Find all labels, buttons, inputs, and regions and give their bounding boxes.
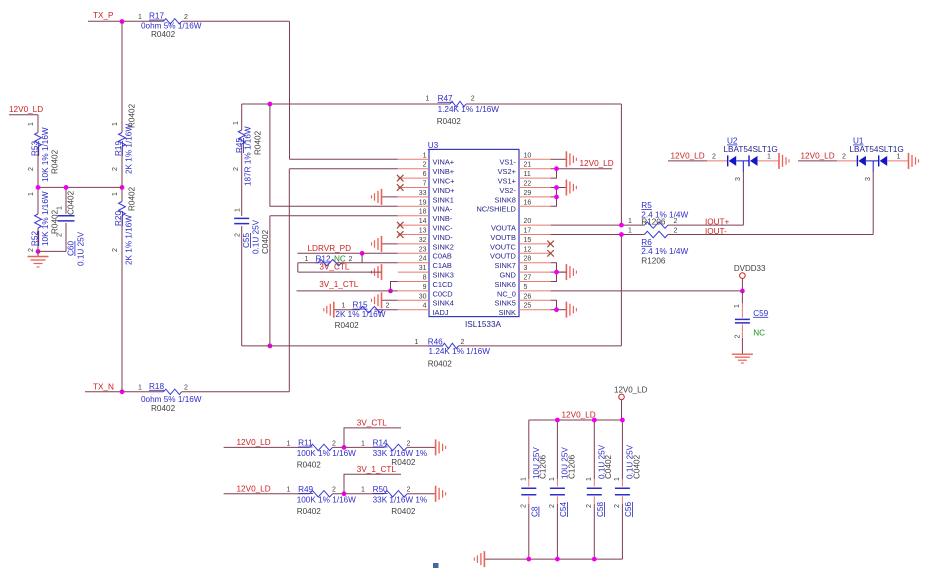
svg-text:SINK4: SINK4 <box>433 299 454 308</box>
svg-text:R49: R49 <box>298 485 313 494</box>
svg-text:1: 1 <box>233 121 240 125</box>
U3 pin 10 (VS1-) <box>499 152 566 166</box>
IC U3 ISL1533A <box>428 141 519 329</box>
junction ground rail <box>555 557 560 562</box>
svg-text:11: 11 <box>524 171 531 178</box>
svg-text:1: 1 <box>426 95 430 102</box>
svg-text:29: 29 <box>524 190 532 197</box>
svg-text:C8: C8 <box>531 506 540 517</box>
U3 pin 2 (VINB+) <box>398 162 454 176</box>
junction top rail <box>592 418 597 423</box>
U3 pin 31 (SINK3) <box>398 265 454 279</box>
capacitor C54 <box>549 420 576 559</box>
U3 pin 15 (VOUTC) <box>490 237 554 251</box>
svg-text:VIND+: VIND+ <box>433 186 455 195</box>
resistor R12 (NC) <box>305 254 353 266</box>
svg-text:3V_1_CTL: 3V_1_CTL <box>357 465 397 474</box>
svg-text:15: 15 <box>524 237 532 244</box>
svg-text:SINK: SINK <box>499 308 516 317</box>
svg-text:2: 2 <box>842 154 846 161</box>
U3 pin 24 (C1AB) <box>398 256 452 270</box>
ground at GND <box>566 264 576 280</box>
node TX_N <box>85 383 289 392</box>
svg-text:100K 1% 1/16W: 100K 1% 1/16W <box>297 496 356 505</box>
wire node A horizontal <box>38 186 122 188</box>
svg-text:R0402: R0402 <box>428 359 453 368</box>
U3 pin 9 (C0CD) <box>398 284 453 298</box>
junction ground rail <box>526 557 531 562</box>
resistor R11 <box>287 439 357 470</box>
svg-text:R52: R52 <box>30 231 39 246</box>
U3 pin 28 (SINK7) <box>495 256 551 270</box>
svg-text:C59: C59 <box>753 309 768 318</box>
svg-text:C1CD: C1CD <box>433 280 453 289</box>
junction VS2+ <box>554 166 559 171</box>
svg-text:2: 2 <box>423 162 427 169</box>
junction SINK pin <box>554 307 559 312</box>
svg-text:DVDD33: DVDD33 <box>734 264 766 273</box>
svg-text:3: 3 <box>735 177 742 181</box>
wire cap bank ground rail <box>484 558 622 560</box>
svg-text:1: 1 <box>361 440 365 447</box>
resistor R15 <box>334 301 398 331</box>
svg-text:VOUTC: VOUTC <box>490 242 517 251</box>
svg-text:9: 9 <box>423 284 427 291</box>
svg-text:R46: R46 <box>428 338 443 347</box>
svg-text:R0402: R0402 <box>297 461 322 470</box>
wire VOUTA to R5 <box>551 224 645 226</box>
junction R52 bottom <box>36 249 41 254</box>
U3 pin 13 (VIND-) <box>397 228 453 242</box>
svg-text:2: 2 <box>407 440 411 447</box>
svg-text:LDRVR_PD: LDRVR_PD <box>308 244 352 253</box>
junction VINB- branch / R46 line <box>268 344 273 349</box>
ground at U2 pin 1 <box>779 153 789 169</box>
svg-text:VOUTA: VOUTA <box>491 224 516 233</box>
svg-text:GND: GND <box>499 271 515 280</box>
svg-text:187R 1% 1/16W: 187R 1% 1/16W <box>244 126 253 186</box>
svg-text:R0402: R0402 <box>151 404 176 413</box>
resistor R14 <box>361 439 427 467</box>
ground at cap bank <box>474 551 484 567</box>
svg-text:2: 2 <box>521 504 528 508</box>
svg-text:32: 32 <box>419 237 427 244</box>
junction R53/R52 <box>36 185 41 190</box>
svg-text:23: 23 <box>419 246 427 253</box>
U3 pin 3 (GND) <box>499 265 566 279</box>
svg-text:24: 24 <box>419 256 427 263</box>
svg-text:2: 2 <box>674 218 678 225</box>
junction SINK8 <box>554 195 559 200</box>
svg-text:1: 1 <box>138 14 142 21</box>
svg-text:R0402: R0402 <box>51 149 60 174</box>
node 12V0_LD divider A <box>224 438 436 447</box>
U3 pin 11 (VS1+) <box>498 171 551 185</box>
svg-text:VINA-: VINA- <box>433 205 453 214</box>
U3 pin 30 (SINK4) <box>382 293 454 307</box>
svg-text:5: 5 <box>524 284 528 291</box>
svg-text:25: 25 <box>524 303 532 310</box>
svg-text:3V_CTL: 3V_CTL <box>357 418 387 427</box>
svg-text:1: 1 <box>897 154 901 161</box>
svg-text:C0402: C0402 <box>604 454 613 479</box>
ground at U1 pin 1 <box>909 153 919 169</box>
U3 pin 26 (SINK5) <box>495 293 551 307</box>
svg-text:R0402: R0402 <box>128 103 137 128</box>
svg-text:8: 8 <box>423 275 427 282</box>
svg-text:1.24K 1% 1/16W: 1.24K 1% 1/16W <box>429 347 491 356</box>
diode pair U2 LBAT54SLT1G <box>668 137 779 182</box>
svg-text:3V_1_CTL: 3V_1_CTL <box>319 280 359 289</box>
svg-text:VINB+: VINB+ <box>433 167 455 176</box>
node 12V0_LD off-page connector <box>614 386 648 420</box>
U3 pin 32 (SINK2) <box>382 237 454 251</box>
svg-text:R0402: R0402 <box>391 507 416 516</box>
node 12V0_LD stub top-left <box>9 105 43 251</box>
svg-text:2: 2 <box>471 95 475 102</box>
svg-text:3V_CTL: 3V_CTL <box>319 262 349 271</box>
svg-text:1: 1 <box>361 487 365 494</box>
svg-text:R0402: R0402 <box>253 130 262 155</box>
svg-text:VS2-: VS2- <box>499 186 516 195</box>
svg-text:2: 2 <box>28 248 35 252</box>
U3 pin 12 (VOUTD) <box>490 246 554 260</box>
svg-text:R47: R47 <box>438 94 453 103</box>
ground at R14 <box>436 439 446 455</box>
svg-text:12V0_LD: 12V0_LD <box>237 485 271 494</box>
U3 pin 1 (VINA+) <box>398 152 454 166</box>
junction R47 line / VINA- branch <box>268 102 273 107</box>
svg-text:VOUTD: VOUTD <box>490 252 516 261</box>
wire VINA- branch <box>270 104 398 206</box>
junction top rail <box>555 418 560 423</box>
wire R12 link <box>298 253 398 272</box>
node 3V_1_CTL label stub <box>344 465 401 494</box>
node 12V0_LD at VS2+ <box>551 159 614 169</box>
svg-text:2: 2 <box>184 384 188 391</box>
svg-text:2: 2 <box>57 233 64 237</box>
svg-text:R0402: R0402 <box>51 209 60 234</box>
U3 pin 14 (VINC-) <box>397 218 453 232</box>
svg-text:SINK6: SINK6 <box>495 280 516 289</box>
svg-text:C1206: C1206 <box>539 454 548 479</box>
svg-text:R0402: R0402 <box>151 30 176 39</box>
junction divider B <box>342 491 347 496</box>
svg-text:1: 1 <box>767 154 771 161</box>
svg-text:R6: R6 <box>641 238 652 247</box>
U3 pin 27 (SINK6) <box>495 275 551 289</box>
svg-text:NC_0: NC_0 <box>497 289 516 298</box>
ground at SINK <box>566 302 576 318</box>
svg-text:10K 1% 1/16W: 10K 1% 1/16W <box>41 127 50 182</box>
U3 pin 17 (VOUTB) <box>490 228 550 242</box>
resistor R45 <box>233 121 262 186</box>
wire TX_P vertical bias chain <box>121 21 123 392</box>
junction VS2- <box>554 185 559 190</box>
svg-text:19: 19 <box>419 199 427 206</box>
svg-text:2: 2 <box>332 487 336 494</box>
svg-text:1: 1 <box>415 339 419 346</box>
svg-text:C55: C55 <box>242 233 251 248</box>
capacitor C58 <box>586 420 613 559</box>
svg-text:2: 2 <box>407 487 411 494</box>
svg-text:2K 1% 1/16W: 2K 1% 1/16W <box>335 310 385 319</box>
svg-text:VINC-: VINC- <box>433 224 454 233</box>
node 12V0_LD cap bank rail <box>529 411 623 420</box>
ground at SINK3 / R12 return <box>372 264 382 280</box>
wire R47 feedback line <box>242 104 622 225</box>
wire VS2+/VS1+ tie <box>551 169 557 178</box>
resistor R49 <box>287 485 357 516</box>
svg-text:2: 2 <box>184 14 188 21</box>
svg-text:2: 2 <box>614 504 621 508</box>
svg-text:C0AB: C0AB <box>433 252 452 261</box>
U3 pin 18 (VINB-) <box>398 209 453 223</box>
svg-text:SINK2: SINK2 <box>433 242 454 251</box>
svg-text:ISL1533A: ISL1533A <box>465 320 502 329</box>
svg-text:R20: R20 <box>114 211 123 226</box>
svg-text:R0402: R0402 <box>437 117 462 126</box>
svg-text:0.1U 25V: 0.1U 25V <box>252 219 261 254</box>
resistor R52 <box>28 191 60 252</box>
junction GND pin <box>554 270 559 275</box>
resistor R5 <box>628 201 688 228</box>
svg-text:R0402: R0402 <box>297 507 322 516</box>
diode pair U1 LBAT54SLT1G <box>798 137 909 182</box>
svg-text:33: 33 <box>419 190 427 197</box>
node LDRVR_PD <box>297 244 397 253</box>
svg-text:12V0_LD: 12V0_LD <box>562 411 596 420</box>
svg-text:SINK7: SINK7 <box>495 261 516 270</box>
svg-text:1: 1 <box>112 192 119 196</box>
svg-text:2: 2 <box>386 302 390 309</box>
svg-text:1: 1 <box>628 218 632 225</box>
U3 pin 16 (NC/SHIELD) <box>476 199 550 213</box>
wire VOUTB to R6 <box>551 234 645 236</box>
svg-text:2: 2 <box>549 504 556 508</box>
ground at VS2- <box>566 180 576 196</box>
svg-text:1: 1 <box>586 477 593 481</box>
svg-text:R1206: R1206 <box>641 256 666 265</box>
wire TX_N to pin VINB+ <box>289 169 398 392</box>
svg-text:2: 2 <box>674 228 678 235</box>
wire SINK5/SINK tie <box>551 300 557 309</box>
resistor R17 <box>138 12 202 39</box>
svg-text:1: 1 <box>235 208 242 212</box>
svg-text:R5: R5 <box>641 201 652 210</box>
svg-text:12: 12 <box>524 246 532 253</box>
resistor R19 <box>112 103 137 174</box>
svg-text:C0402: C0402 <box>261 229 270 254</box>
svg-text:2K 1% 1/16W: 2K 1% 1/16W <box>124 124 133 174</box>
ground at SINK4 <box>372 292 382 308</box>
junction top rail <box>620 418 625 423</box>
svg-text:IADJ: IADJ <box>433 308 449 317</box>
junction LDRVR_PD / R12 <box>360 251 365 256</box>
svg-text:1: 1 <box>549 477 556 481</box>
svg-text:C1206: C1206 <box>567 454 576 479</box>
junction C60 top <box>64 185 69 190</box>
svg-text:2: 2 <box>28 167 35 171</box>
wire R45/C55 branch <box>241 104 243 346</box>
wire VINB- branch <box>270 216 398 346</box>
svg-text:TX_N: TX_N <box>93 383 114 392</box>
svg-text:NC: NC <box>753 328 765 337</box>
svg-text:C58: C58 <box>596 502 605 517</box>
svg-text:U3: U3 <box>428 141 439 150</box>
svg-text:12V0_LD: 12V0_LD <box>614 386 648 395</box>
svg-text:R1206: R1206 <box>641 217 666 226</box>
svg-text:R50: R50 <box>373 485 388 494</box>
wire TX_P to pin VINA+ <box>290 22 398 160</box>
junction VOUTB / feedback <box>619 232 624 237</box>
svg-text:SINK5: SINK5 <box>495 299 516 308</box>
wire C1CD/C0CD tie <box>391 282 398 291</box>
U3 pin 29 (SINK8) <box>495 190 551 204</box>
svg-text:VS1-: VS1- <box>499 158 516 167</box>
resistor R6 <box>628 228 688 266</box>
node 3V_1_CTL at C0CD <box>297 280 398 291</box>
capacitor C55 <box>234 208 270 254</box>
svg-text:1: 1 <box>614 477 621 481</box>
svg-text:C0402: C0402 <box>632 454 641 479</box>
svg-text:0.1U 25V: 0.1U 25V <box>77 231 86 266</box>
U3 pin 19 (VINA-) <box>398 199 453 213</box>
capacitor C60 <box>57 187 86 266</box>
capacitor C56 <box>614 420 641 559</box>
svg-text:13: 13 <box>419 228 427 235</box>
svg-text:1: 1 <box>342 302 346 309</box>
svg-text:1: 1 <box>305 256 309 263</box>
svg-text:10K 1% 1/16W: 10K 1% 1/16W <box>41 191 50 246</box>
svg-text:2: 2 <box>461 339 465 346</box>
svg-text:2: 2 <box>112 248 119 252</box>
svg-text:14: 14 <box>419 218 427 225</box>
svg-text:TX_P: TX_P <box>93 11 114 20</box>
svg-text:1: 1 <box>287 487 291 494</box>
junction TX_P / R19 <box>120 19 125 24</box>
svg-text:C0402: C0402 <box>67 190 76 215</box>
svg-text:VINC+: VINC+ <box>433 177 455 186</box>
svg-text:10: 10 <box>524 152 532 159</box>
svg-text:12V0_LD: 12V0_LD <box>801 151 835 160</box>
svg-text:2: 2 <box>235 233 242 237</box>
svg-text:31: 31 <box>419 265 427 272</box>
resistor R50 <box>361 485 427 516</box>
svg-text:12V0_LD: 12V0_LD <box>237 438 271 447</box>
junction R19/R20 node <box>120 185 125 190</box>
svg-text:1: 1 <box>138 384 142 391</box>
resistor R18 <box>138 382 202 413</box>
wire R52 to ground <box>38 251 66 256</box>
U3 pin 20 (VOUTA) <box>491 218 551 232</box>
ground below R52 <box>28 257 49 268</box>
svg-text:1: 1 <box>28 122 35 126</box>
svg-text:C54: C54 <box>559 502 568 517</box>
ground at SINK2 <box>372 236 382 252</box>
svg-text:18: 18 <box>419 209 427 216</box>
svg-text:VINA+: VINA+ <box>433 158 455 167</box>
svg-text:R0402: R0402 <box>128 186 137 211</box>
svg-text:0ohm 5% 1/16W: 0ohm 5% 1/16W <box>141 21 202 30</box>
U3 pin 33 (SINK1) <box>382 190 454 204</box>
U3 pin 8 (C1CD) <box>398 275 453 289</box>
svg-text:26: 26 <box>524 293 532 300</box>
svg-text:2K 1% 1/16W: 2K 1% 1/16W <box>124 215 133 265</box>
junction DVDD33 <box>740 289 745 294</box>
U3 pin 7 (VIND+) <box>397 181 455 195</box>
ground at R15 <box>324 302 334 318</box>
svg-text:1: 1 <box>521 477 528 481</box>
ground at VS1- <box>566 151 576 167</box>
node TX_P <box>88 11 290 21</box>
U3 pin 21 (VS2+) <box>498 162 551 176</box>
ground at SINK1 <box>372 189 382 205</box>
svg-text:R17: R17 <box>149 12 164 21</box>
svg-text:4: 4 <box>423 303 427 310</box>
svg-text:3: 3 <box>865 177 872 181</box>
node 12V0_LD divider B <box>224 485 436 494</box>
svg-text:12V0_LD: 12V0_LD <box>9 105 43 114</box>
svg-text:SINK1: SINK1 <box>433 195 454 204</box>
node IOUT+ <box>668 172 744 226</box>
svg-text:30: 30 <box>419 293 427 300</box>
svg-text:VOUTB: VOUTB <box>490 233 516 242</box>
svg-text:0ohm 5% 1/16W: 0ohm 5% 1/16W <box>141 395 202 404</box>
ground below C59 <box>732 354 753 363</box>
svg-text:NC/SHIELD: NC/SHIELD <box>476 205 515 214</box>
junction divider A <box>342 445 347 450</box>
svg-text:R45: R45 <box>235 138 244 153</box>
svg-text:16: 16 <box>524 199 532 206</box>
svg-text:C0CD: C0CD <box>433 289 453 298</box>
wire R46 feedback line <box>242 235 622 346</box>
svg-text:6: 6 <box>423 171 427 178</box>
svg-text:28: 28 <box>524 256 532 263</box>
svg-text:VS1+: VS1+ <box>498 177 516 186</box>
svg-text:12V0_LD: 12V0_LD <box>671 151 705 160</box>
node 3V_CTL label stub <box>344 418 401 447</box>
svg-text:1.24K 1% 1/16W: 1.24K 1% 1/16W <box>438 105 500 114</box>
svg-text:100K 1% 1/16W: 100K 1% 1/16W <box>297 449 356 458</box>
svg-text:C60: C60 <box>67 241 76 256</box>
svg-text:SINK3: SINK3 <box>433 271 454 280</box>
resistor R20 <box>112 186 137 265</box>
node IOUT- <box>668 172 873 236</box>
junction C0CD <box>388 289 393 294</box>
wire NC_0 to DVDD33 <box>551 290 743 292</box>
U3 pin 4 (IADJ) <box>398 303 449 317</box>
svg-text:1: 1 <box>287 440 291 447</box>
svg-text:R53: R53 <box>30 141 39 156</box>
svg-text:1: 1 <box>628 228 632 235</box>
U3 pin 23 (C0AB) <box>398 246 452 260</box>
U3 pin 5 (NC_0) <box>497 284 551 298</box>
svg-text:VINB-: VINB- <box>433 214 453 223</box>
svg-text:1: 1 <box>423 152 427 159</box>
svg-text:C1AB: C1AB <box>433 261 452 270</box>
svg-text:1: 1 <box>734 304 741 308</box>
resistor R47 <box>426 94 500 126</box>
svg-text:27: 27 <box>524 275 532 282</box>
svg-text:R0402: R0402 <box>335 321 360 330</box>
svg-text:2: 2 <box>233 167 240 171</box>
svg-text:R14: R14 <box>373 439 388 448</box>
U3 pin 6 (VINC+) <box>397 171 455 185</box>
svg-text:3: 3 <box>524 265 528 272</box>
resistor R53 <box>28 122 60 182</box>
wire artifact marker <box>433 563 439 568</box>
